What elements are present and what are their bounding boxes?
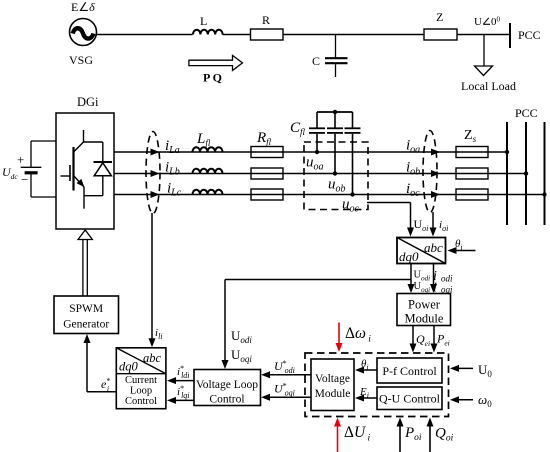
svg-text:U: U (474, 16, 482, 28)
svg-text:Power: Power (408, 298, 441, 312)
svg-text:PCC: PCC (515, 106, 538, 120)
svg-text:dq0: dq0 (119, 360, 139, 374)
svg-text:Control: Control (125, 396, 157, 407)
svg-text:Loop: Loop (130, 386, 152, 397)
svg-text:C: C (312, 54, 320, 68)
svg-text:e*i: e*i (101, 377, 110, 394)
svg-text:Control: Control (209, 394, 244, 406)
svg-text:DGi: DGi (77, 95, 99, 109)
svg-text:Current: Current (125, 375, 157, 386)
svg-text:Z: Z (436, 10, 443, 24)
svg-text:E∠δ: E∠δ (71, 0, 95, 14)
svg-text:R: R (262, 13, 270, 27)
svg-text:Local Load: Local Load (461, 79, 516, 93)
svg-text:odi: odi (441, 274, 453, 284)
svg-text:abc: abc (143, 351, 162, 365)
svg-text:Module: Module (405, 312, 444, 326)
svg-text:L: L (200, 14, 207, 28)
svg-text:Voltage Loop: Voltage Loop (196, 379, 258, 391)
svg-text:Module: Module (315, 388, 351, 400)
svg-text:PCC: PCC (518, 28, 541, 42)
svg-text:VSG: VSG (69, 53, 93, 67)
svg-text:Voltage: Voltage (315, 373, 350, 385)
svg-text:−: − (21, 172, 28, 187)
svg-text:Generator: Generator (63, 319, 109, 331)
svg-text:+: + (17, 152, 24, 167)
svg-text:P Q: P Q (203, 71, 222, 85)
svg-text:abc: abc (424, 240, 443, 255)
svg-text:dq0: dq0 (399, 249, 419, 264)
svg-text:SPWM: SPWM (69, 303, 103, 315)
svg-text:P-f Control: P-f Control (382, 364, 437, 378)
svg-text:Q-U Control: Q-U Control (379, 392, 441, 406)
